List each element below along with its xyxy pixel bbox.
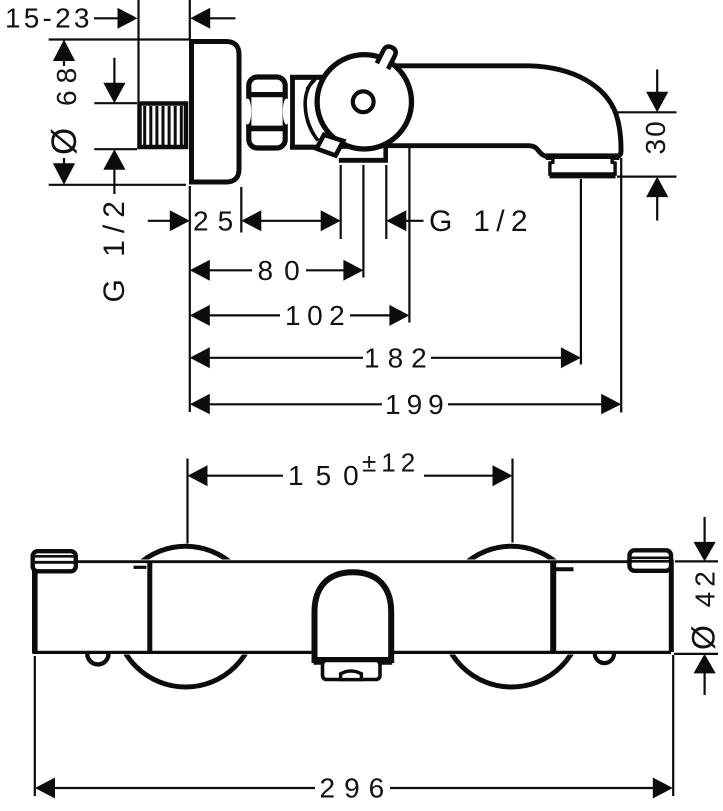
dim 15-23 left arrow bbox=[94, 17, 119, 19]
dia42 down arrow bbox=[703, 517, 705, 544]
dia42 bottom leader bbox=[674, 653, 718, 655]
mixer bar body bbox=[33, 560, 673, 655]
thermostat handle circle bbox=[317, 55, 411, 149]
182 extension line bbox=[580, 179, 582, 365]
svg-text:182: 182 bbox=[364, 342, 435, 373]
pipe bottom extension line bbox=[94, 148, 137, 150]
dim 182 bbox=[190, 347, 210, 368]
flange face extension line (top) bbox=[189, 0, 191, 40]
svg-text:G 1/2: G 1/2 bbox=[429, 205, 534, 238]
aerator nub bbox=[341, 671, 362, 680]
handle lever bbox=[377, 45, 398, 69]
pipe dia up arrow bbox=[103, 149, 125, 170]
right handle cap bbox=[630, 550, 672, 571]
nut barrel highlight left bbox=[244, 99, 251, 125]
102 extension line bbox=[408, 148, 410, 323]
spout front dome bottom bar bbox=[314, 658, 393, 665]
dia68 bottom extension line bbox=[49, 184, 186, 186]
threaded pipe G1/2 bbox=[140, 104, 187, 148]
svg-text:199: 199 bbox=[385, 389, 450, 420]
pipe thread hatch bbox=[145, 106, 182, 145]
svg-text:G 1/2: G 1/2 bbox=[98, 194, 131, 302]
union nut bbox=[249, 77, 285, 148]
right handle divider bbox=[550, 561, 556, 652]
svg-text:30: 30 bbox=[640, 119, 671, 154]
dia68 up arrow bbox=[53, 40, 75, 62]
valve body top edge bbox=[290, 75, 332, 80]
dim 199 bbox=[190, 394, 210, 415]
G 1/2 right dim arrow bbox=[386, 210, 406, 231]
nut facet line upper bbox=[247, 92, 288, 97]
outlet centre extension line bbox=[362, 165, 364, 278]
left check-valve bump bbox=[87, 652, 108, 664]
cartridge crescent bbox=[305, 78, 318, 141]
svg-text:±12: ±12 bbox=[362, 448, 420, 478]
wall flange (escutcheon) bbox=[192, 42, 240, 183]
dim 150 right extension line bbox=[511, 459, 513, 543]
spout front dome bbox=[315, 572, 392, 660]
right escutcheon circle bbox=[441, 546, 582, 687]
dim 25 left arrow bbox=[148, 220, 172, 222]
nut barrel highlight right bbox=[283, 99, 290, 125]
199 extension line bbox=[620, 158, 622, 413]
aerator cup bbox=[550, 159, 615, 174]
svg-text:80: 80 bbox=[258, 255, 311, 286]
aerator flange bar bbox=[546, 153, 620, 160]
dia68 top extension line bbox=[49, 38, 189, 40]
lower shut-off lever bbox=[317, 135, 344, 156]
pipe dia down arrow bbox=[113, 58, 115, 84]
left handle divider bbox=[147, 562, 152, 653]
spout outlet plate bbox=[339, 149, 386, 163]
svg-text:102: 102 bbox=[285, 300, 351, 331]
pipe top extension line bbox=[94, 102, 137, 104]
left handle cap bbox=[33, 551, 76, 571]
spout front base bbox=[323, 661, 381, 680]
left escutcheon circle bbox=[115, 546, 256, 687]
svg-text:25: 25 bbox=[193, 205, 242, 236]
svg-text:150: 150 bbox=[288, 460, 371, 491]
dim 80 bbox=[190, 260, 210, 281]
svg-text:296: 296 bbox=[320, 773, 394, 804]
aerator bottom edge bbox=[550, 174, 616, 178]
wall plane extension line bbox=[137, 0, 139, 103]
dim 15-23 right arrow bbox=[190, 8, 210, 29]
svg-text:Ø 68: Ø 68 bbox=[45, 61, 84, 155]
right check-valve bump bbox=[595, 652, 614, 663]
cartridge leaf detail bbox=[307, 80, 316, 90]
dia68 down arrow bbox=[63, 158, 65, 165]
nut facet line lower bbox=[247, 126, 288, 132]
spout body bbox=[380, 66, 621, 157]
flange back extension line bbox=[240, 187, 242, 233]
dim 30 down arrow bbox=[656, 70, 658, 95]
dia42 up arrow bbox=[694, 654, 716, 674]
dim 296 right extension line bbox=[672, 655, 674, 796]
svg-text:Ø 42: Ø 42 bbox=[686, 566, 722, 650]
dia42 top leader bbox=[675, 560, 718, 562]
dim 25 right arrow + G12 span line bbox=[241, 210, 261, 231]
svg-text:15-23: 15-23 bbox=[5, 3, 93, 34]
dim 102 bbox=[190, 305, 210, 326]
dim 30 bottom leader bbox=[617, 176, 677, 178]
dim 150+-12 line and arrows bbox=[188, 465, 208, 486]
outlet right extension line bbox=[385, 165, 387, 239]
dim 30 top leader bbox=[614, 111, 677, 113]
dim 150 left extension line bbox=[186, 459, 188, 544]
flange face extension line (bottom) bbox=[189, 186, 191, 412]
outlet left extension line bbox=[340, 165, 342, 239]
left handle tick bbox=[134, 566, 147, 569]
dim 30 up arrow bbox=[646, 177, 668, 198]
valve body bottom edge bbox=[290, 145, 356, 150]
dim 296 bbox=[35, 778, 55, 799]
right handle tick bbox=[556, 567, 574, 571]
handle hub circle bbox=[353, 91, 374, 112]
valve body left edge bbox=[290, 75, 295, 150]
dim 296 left extension line bbox=[34, 656, 36, 796]
